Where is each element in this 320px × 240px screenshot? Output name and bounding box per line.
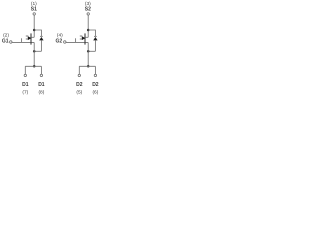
transistor Q1 gate electrode bar [21,38,23,42]
transistor Q2 gate electrode bar [75,38,77,42]
svg-text:D2: D2 [92,82,99,88]
junction dot drain rail Q1 [33,65,36,68]
terminal S1 [33,13,35,15]
wire S1 branch to diode cathode [34,30,41,36]
body diode of Q2 cathode bar [94,35,97,37]
node D1 name label left [22,82,29,88]
node S1 name label [31,6,37,12]
svg-text:(6): (6) [92,89,98,95]
wire S2 down to source stub [87,15,89,37]
terminal D2 pin6 [94,74,96,76]
transistor Q2 channel dash mid [80,38,82,40]
node D1 name label right [38,82,45,88]
transistor Q1 channel bar [30,33,32,44]
terminal D2 pin5 [78,74,80,76]
transistor Q2 channel bar [84,33,86,44]
body diode of Q1 anode triangle [39,37,43,40]
svg-text:G1: G1 [2,38,9,44]
wire drain rail D2 [79,65,95,67]
wire S2 branch to diode cathode [88,30,95,36]
node D1 pin label (8) [38,89,44,95]
wire diode join to drain line [34,50,41,52]
transistor Q2 channel dash top [80,35,83,37]
transistor Q1 channel dash top [26,35,29,37]
node D1 pin label (7) [22,89,28,95]
terminal G2 [64,41,66,43]
wire D2 left drop [78,66,80,74]
node G2 pin label (4) [57,33,63,39]
svg-text:(5): (5) [76,89,82,95]
svg-text:(7): (7) [22,89,28,95]
wire D2 right drop [94,66,96,74]
node S2 pin label (3) [85,1,91,7]
body diode of Q1 cathode bar [40,35,43,37]
svg-text:(8): (8) [38,89,44,95]
wire S1 down to source stub [33,15,35,37]
wire D1 left drop [24,66,26,74]
terminal D1 pin7 [24,74,26,76]
wire diode anode down 2 [94,40,96,51]
node S2 name label [85,6,91,12]
node G2 name label [55,38,62,44]
wire Q2 drain down [87,43,89,67]
svg-text:D1: D1 [22,82,29,88]
node D2 pin label (5) [76,89,82,95]
svg-text:S2: S2 [85,6,91,12]
junction dot S2/diode branch [87,29,90,32]
transistor Q2 body arrow [82,36,86,40]
node D2 name label right [92,82,99,88]
junction dot diode/drain 2 [87,50,90,53]
terminal S2 [87,13,89,15]
wire G2 gate lead [66,41,88,43]
wire diode anode down [40,40,42,51]
transistor Q2 source stub [85,36,88,38]
wire Q1 drain down [33,43,35,67]
svg-text:G2: G2 [55,38,62,44]
terminal D1 pin8 [40,74,42,76]
node D2 pin label (6) [92,89,98,95]
wire D1 right drop [40,66,42,74]
transistor Q1 channel dash mid [26,38,28,40]
node G1 name label [2,38,9,44]
transistor Q1 source stub [31,36,34,38]
terminal G1 [10,41,12,43]
node S1 pin label (1) [31,1,37,7]
node D2 name label left [76,82,83,88]
junction dot drain rail Q2 [87,65,90,68]
wire diode join to drain line 2 [88,50,95,52]
svg-text:S1: S1 [31,6,37,12]
svg-text:D1: D1 [38,82,45,88]
transistor Q1 body arrow [28,36,32,40]
node G1 pin label (2) [3,33,9,39]
body diode of Q2 anode triangle [93,37,97,40]
junction dot S1/diode branch [33,29,36,32]
svg-text:D2: D2 [76,82,83,88]
junction dot diode/drain [33,50,36,53]
wire drain rail D1 [25,65,41,67]
wire G1 gate lead [12,41,34,43]
